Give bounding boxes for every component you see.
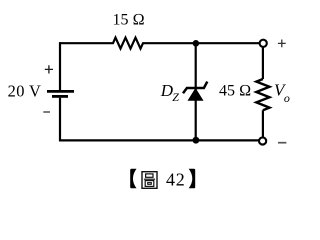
svg-text:15 Ω: 15 Ω	[113, 11, 145, 28]
svg-text:Z: Z	[172, 90, 179, 104]
svg-text:20 V: 20 V	[8, 82, 42, 101]
svg-text:45 Ω: 45 Ω	[219, 83, 251, 100]
svg-text:42: 42	[166, 170, 185, 190]
svg-text:o: o	[284, 91, 290, 105]
